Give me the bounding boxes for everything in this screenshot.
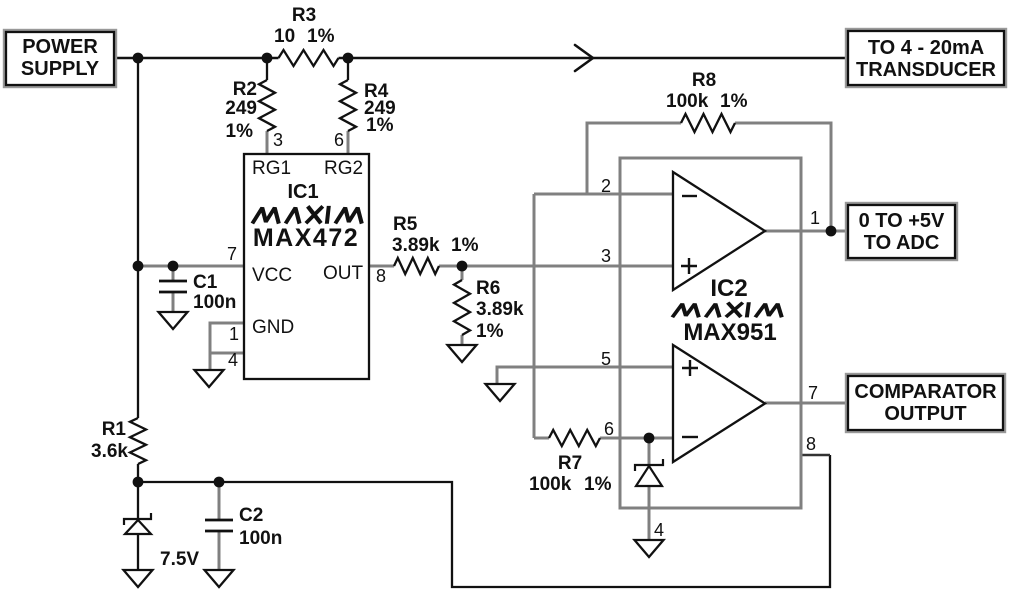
svg-text:C1: C1 (193, 272, 218, 293)
svg-text:RG2: RG2 (324, 158, 363, 179)
svg-text:3.89k: 3.89k (476, 299, 524, 320)
svg-text:8: 8 (806, 434, 816, 454)
node: op-amp1 output / R8 (826, 226, 837, 237)
wire: op-amp 1 output to ADC box (765, 230, 848, 233)
resistor R1 (130, 418, 146, 464)
op-amp U1 top half of IC2 (673, 172, 765, 290)
svg-text:TO 4 - 20mA: TO 4 - 20mA (868, 37, 984, 59)
svg-text:SUPPLY: SUPPLY (21, 58, 100, 80)
svg-text:GND: GND (252, 317, 294, 338)
wire: zener D2 leads (648, 438, 651, 540)
node: R3 right / R4 (343, 53, 354, 64)
svg-text:100n: 100n (239, 528, 282, 549)
arrow on power rail (575, 45, 593, 71)
resistor R7 (549, 430, 600, 446)
svg-text:R1: R1 (102, 419, 127, 440)
svg-text:MAX472: MAX472 (253, 224, 359, 252)
svg-text:100n: 100n (193, 292, 236, 313)
svg-text:3.6k: 3.6k (91, 441, 128, 462)
0 TO +5V TO ADC box (846, 203, 957, 260)
wire: IC1 GND loop pins 1 and 4 (210, 323, 244, 370)
svg-text:7.5V: 7.5V (160, 549, 199, 570)
ground below C2 (205, 570, 234, 587)
svg-text:R2: R2 (233, 79, 257, 100)
svg-text:3: 3 (273, 130, 283, 150)
svg-text:C2: C2 (239, 505, 263, 526)
svg-text:R3: R3 (292, 5, 316, 26)
svg-text:IC2: IC2 (710, 275, 747, 302)
wire: R7 leads to pin 6 (534, 437, 673, 440)
op-amp U2 bottom half of IC2 (673, 345, 765, 462)
wire: VCC wire to IC1 pin 7 (138, 265, 244, 268)
node: R3 left / R2 (262, 53, 273, 64)
svg-text:100k: 100k (666, 91, 709, 112)
wire: left vertical rail from power junction down to R1 (137, 58, 139, 482)
svg-text:1%: 1% (451, 235, 479, 256)
wire: C1 leads (172, 266, 175, 312)
svg-text:1%: 1% (584, 474, 612, 495)
svg-text:COMPARATOR: COMPARATOR (854, 381, 997, 403)
IC1 body MAX472 (244, 154, 369, 379)
svg-text:1%: 1% (226, 121, 254, 142)
wire: R4 lead to IC1 pin 6 (347, 131, 350, 155)
wire: bottom return loop from R1 node to IC2 pin 8 (138, 455, 830, 587)
MAXIM logo IC1 (253, 208, 362, 222)
svg-text:3: 3 (601, 246, 611, 266)
svg-text:6: 6 (334, 130, 344, 150)
resistor R8 (681, 114, 735, 132)
svg-text:10: 10 (274, 26, 295, 47)
svg-text:249: 249 (225, 98, 257, 119)
svg-text:TRANSDUCER: TRANSDUCER (856, 59, 997, 81)
wire: R6 leads (461, 266, 464, 345)
POWER SUPPLY box (4, 30, 116, 87)
resistor R5 (394, 258, 439, 274)
svg-text:7: 7 (808, 383, 818, 403)
ground below zener D2 (635, 540, 664, 557)
MAXIM logo IC2 (673, 304, 782, 316)
wire: C2 leads (218, 482, 221, 570)
svg-text:7: 7 (227, 244, 237, 264)
resistor R3 (279, 50, 339, 66)
ground below C1 (159, 312, 188, 329)
node: C1 tap (168, 261, 179, 272)
svg-text:OUTPUT: OUTPUT (884, 403, 966, 425)
wire: R8 feedback loop (587, 123, 831, 231)
svg-text:IC1: IC1 (287, 181, 318, 203)
wire: R2 top lead (266, 58, 268, 80)
capacitor C2 (205, 520, 233, 531)
ground below R6 (448, 345, 477, 362)
wire: R5 to node A to op-amp pin 3 (439, 265, 673, 268)
wire: top power rail (114, 57, 848, 59)
node: pin 6 / zener D2 (644, 433, 655, 444)
svg-text:1: 1 (229, 324, 239, 344)
svg-text:8: 8 (376, 266, 386, 286)
node: R5/R6 divider (457, 261, 468, 272)
svg-text:1%: 1% (307, 26, 335, 47)
node junction dots (133, 53, 837, 488)
wire: R2 lead to IC1 pin 3 (266, 131, 269, 155)
svg-text:1%: 1% (476, 321, 504, 342)
resistor R4 (340, 80, 356, 131)
zener diode D2 (635, 459, 663, 486)
svg-text:2: 2 (601, 176, 611, 196)
ground below zener D1 (124, 570, 153, 587)
resistor R2 (259, 80, 275, 131)
svg-text:1%: 1% (366, 115, 394, 136)
svg-text:POWER: POWER (22, 36, 98, 58)
wire: zener D1 leads (137, 482, 139, 570)
resistor R6 (454, 280, 470, 335)
svg-text:4: 4 (654, 520, 664, 540)
svg-text:OUT: OUT (323, 263, 364, 284)
svg-text:5: 5 (601, 349, 611, 369)
svg-text:100k: 100k (529, 474, 572, 495)
svg-text:R8: R8 (692, 70, 716, 91)
IC2 package outline (620, 158, 801, 508)
TO 4-20mA TRANSDUCER box (846, 29, 1006, 87)
node: power rail / left rail (133, 53, 144, 64)
svg-text:R6: R6 (476, 278, 500, 299)
svg-text:4: 4 (228, 350, 238, 370)
wire: pin 5 wire to ground (497, 367, 673, 384)
wire: R4 top lead (347, 58, 349, 80)
svg-text:VCC: VCC (252, 265, 292, 286)
svg-text:3.89k: 3.89k (392, 235, 440, 256)
wire: IC2 pin 8 stub (801, 454, 830, 457)
node: VCC rail (133, 261, 144, 272)
zener diode D1 7.5V (124, 513, 151, 534)
svg-text:R5: R5 (393, 214, 418, 235)
node: C2 tap (214, 477, 225, 488)
capacitor C1 (159, 281, 187, 292)
svg-text:6: 6 (604, 419, 614, 439)
wire: vertical from pin 2 node down to R7 (533, 194, 536, 438)
svg-text:1%: 1% (720, 91, 748, 112)
node: R1 bottom / zener D1 (133, 477, 144, 488)
svg-text:0 TO +5V: 0 TO +5V (859, 210, 945, 232)
svg-text:MAX951: MAX951 (683, 319, 776, 346)
svg-text:R7: R7 (558, 453, 582, 474)
wire: op-amp 2 output to comparator box (765, 402, 848, 405)
svg-text:TO ADC: TO ADC (864, 232, 940, 254)
ground at pin 5 (486, 384, 515, 401)
COMPARATOR OUTPUT box (846, 374, 1005, 432)
svg-text:RG1: RG1 (252, 158, 291, 179)
svg-text:1: 1 (810, 208, 820, 228)
wire: IC1 OUT pin 8 to R5 (369, 265, 394, 268)
wire: pin 2 input wire (534, 193, 673, 196)
ground below IC1 GND (195, 370, 224, 387)
